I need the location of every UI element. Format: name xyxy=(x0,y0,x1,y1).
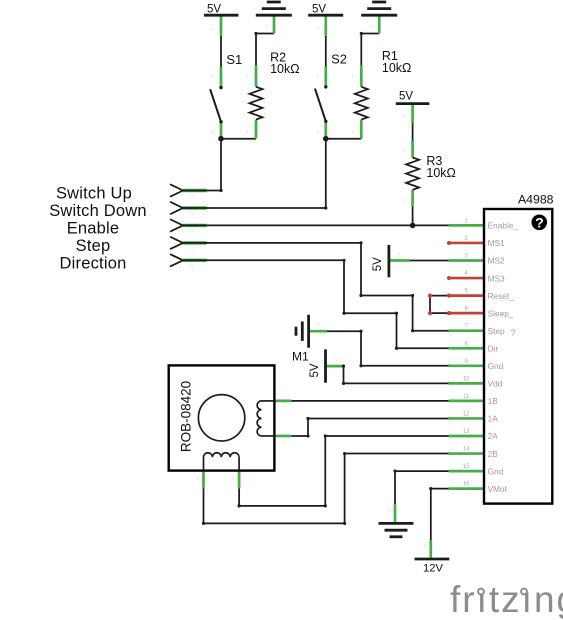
svg-text:Sleep_: Sleep_ xyxy=(488,308,514,318)
svg-text:MS3: MS3 xyxy=(488,273,505,283)
svg-text:2B: 2B xyxy=(488,449,499,459)
svg-text:frıtzıng: frıtzıng xyxy=(450,579,563,620)
svg-text:12: 12 xyxy=(463,411,470,417)
svg-text:Switch Up: Switch Up xyxy=(56,185,132,203)
svg-text:Direction: Direction xyxy=(60,255,127,273)
svg-text:5V: 5V xyxy=(312,4,326,16)
svg-text:MS1: MS1 xyxy=(488,238,505,248)
svg-text:12V: 12V xyxy=(423,563,443,575)
svg-text:1A: 1A xyxy=(488,414,499,424)
svg-text:5V: 5V xyxy=(207,4,221,16)
svg-text:14: 14 xyxy=(463,447,470,453)
svg-text:11: 11 xyxy=(463,394,470,400)
svg-text:5V: 5V xyxy=(372,257,384,271)
svg-text:Gnd: Gnd xyxy=(488,361,504,371)
svg-text:S2: S2 xyxy=(331,52,347,67)
svg-text:Reset_: Reset_ xyxy=(488,291,515,301)
svg-text:10kΩ: 10kΩ xyxy=(270,62,300,76)
svg-text:15: 15 xyxy=(463,464,470,470)
svg-text:S1: S1 xyxy=(226,52,242,67)
svg-text:2A: 2A xyxy=(488,431,499,441)
svg-text:10kΩ: 10kΩ xyxy=(382,61,412,75)
svg-text:?: ? xyxy=(535,214,544,230)
svg-text:1B: 1B xyxy=(488,396,499,406)
svg-text:ROB-08420: ROB-08420 xyxy=(179,381,194,452)
svg-text:VMot: VMot xyxy=(488,484,508,494)
svg-text:M1: M1 xyxy=(292,349,309,363)
svg-text:MS2: MS2 xyxy=(488,256,505,266)
svg-text:Switch Down: Switch Down xyxy=(49,202,147,220)
svg-text:Gnd: Gnd xyxy=(488,466,504,476)
svg-text:10kΩ: 10kΩ xyxy=(426,166,456,180)
svg-text:A4988: A4988 xyxy=(518,192,554,206)
svg-text:10: 10 xyxy=(463,376,470,382)
svg-text:16: 16 xyxy=(463,482,470,488)
svg-text:5V: 5V xyxy=(399,90,413,102)
svg-text:Dir: Dir xyxy=(488,343,499,353)
svg-text:Enable_: Enable_ xyxy=(488,221,519,231)
svg-text:Vdd: Vdd xyxy=(488,379,503,389)
svg-text:?: ? xyxy=(510,328,515,339)
svg-text:Step: Step xyxy=(76,237,111,255)
svg-text:13: 13 xyxy=(463,429,470,435)
svg-text:Enable: Enable xyxy=(67,220,120,238)
svg-text:5V: 5V xyxy=(309,363,321,377)
svg-text:Step: Step xyxy=(488,326,505,336)
